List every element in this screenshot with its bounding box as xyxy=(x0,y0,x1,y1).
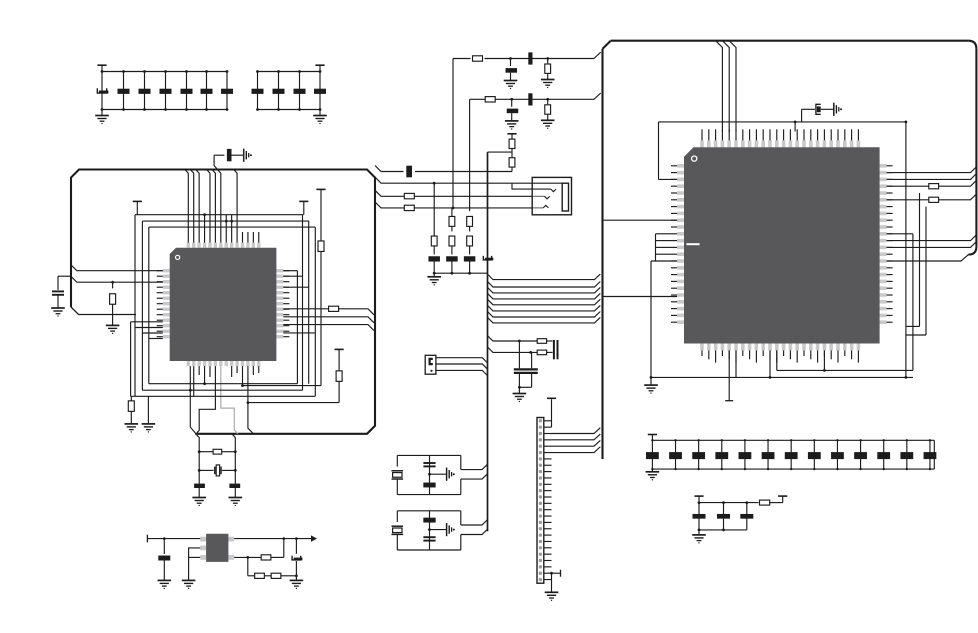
capacitor C10 xyxy=(294,70,306,111)
capacitor C1 (polarized) xyxy=(97,70,108,111)
power symbol (loop1 left) xyxy=(133,201,142,214)
capacitor C13 xyxy=(52,291,64,308)
capacitor C33 xyxy=(785,439,798,470)
capacitor C20 xyxy=(428,256,440,273)
left block border bus (top) xyxy=(71,170,375,434)
power symbol (R15) xyxy=(507,134,516,139)
wire loop right verticals xyxy=(303,215,316,397)
resistor R11 xyxy=(473,56,483,61)
resistor R4 xyxy=(318,241,324,252)
ground (C13) xyxy=(51,308,65,316)
resistor R6 xyxy=(128,396,134,424)
capacitor C15 xyxy=(229,484,240,498)
ferrite bead FB3 xyxy=(406,166,412,178)
capacitor C41 xyxy=(717,503,730,530)
power symbol (R28) xyxy=(770,496,788,503)
wire (trio bottom) xyxy=(698,529,747,532)
clock marks (U4) xyxy=(543,189,556,208)
capacitor C26 (polarized) xyxy=(802,104,834,122)
power symbol (R4) xyxy=(316,189,325,241)
wire (pin to rail) xyxy=(794,122,796,132)
wire (crystal left leg) xyxy=(196,434,200,484)
wire (U2 top rail) xyxy=(659,121,908,124)
junction dot row1-R12 xyxy=(546,57,549,60)
junction dot row2-R14 xyxy=(546,98,549,101)
power rail (VREG out) xyxy=(147,535,317,543)
wire (E1 drop) xyxy=(518,340,521,369)
wires (U2 top pin stubs) xyxy=(702,129,858,140)
wires (U1 top pins) xyxy=(185,170,259,243)
resistor R17 xyxy=(404,193,414,198)
ground (bank 2) xyxy=(313,110,327,124)
wires (U2 left pins) xyxy=(603,122,678,378)
wire (J1 pin2 pwr) xyxy=(551,399,553,427)
ground (collector) xyxy=(427,273,441,285)
ground (bank 3) xyxy=(646,469,660,480)
wire (crystal right leg) xyxy=(232,434,235,484)
ground (J1) xyxy=(545,592,559,600)
capacitor C23 (polarized) xyxy=(483,256,493,261)
capacitor C29 xyxy=(692,439,705,470)
power symbol (bank 3) xyxy=(648,435,657,441)
wire E2b xyxy=(547,351,553,353)
capacitor C27 xyxy=(646,439,659,470)
junction dot row1-C18 xyxy=(509,57,512,60)
resistor R10 xyxy=(271,573,281,578)
capacitor C22 xyxy=(464,256,476,273)
capacitor C8 xyxy=(252,70,264,111)
regulator U3 (SOT-23-5) xyxy=(200,534,234,562)
ground (R2) xyxy=(106,325,120,333)
power symbol (loop1 right) xyxy=(299,201,308,214)
resistor R19 xyxy=(449,208,455,232)
resistor R13 xyxy=(485,97,495,102)
wire loop 3 top xyxy=(149,226,315,228)
capacitor C16 xyxy=(158,537,170,580)
resistor R9 xyxy=(255,573,265,578)
power symbol VCC (bank 1) xyxy=(97,65,106,71)
capacitor C36 xyxy=(854,439,867,470)
capacitor C6 xyxy=(201,70,213,111)
wire A (bead net) xyxy=(375,166,512,172)
wires (U2 right pins) xyxy=(887,122,977,378)
resistor R26 xyxy=(929,184,939,189)
microcontroller U2 (QFP-96) xyxy=(677,140,886,350)
resistor R14 xyxy=(545,99,551,120)
left block border bus (bottom-left stub) xyxy=(71,307,136,315)
capacitor C25 xyxy=(514,369,538,373)
chassis ground (U2) xyxy=(834,103,842,116)
wire (U3 out to fb) xyxy=(234,556,261,559)
connector J1 pins xyxy=(539,419,552,581)
ground (C16) xyxy=(158,580,172,588)
capacitor C39 xyxy=(924,439,937,470)
ground (U1 area) xyxy=(142,396,156,432)
wires (U1 left pins) xyxy=(58,265,163,339)
wire C xyxy=(375,190,545,196)
wire (J1 gnd pin) xyxy=(550,570,560,593)
ground (C25) xyxy=(513,394,527,402)
wire loop 1 top xyxy=(135,214,303,216)
capacitor C18 (polarized) xyxy=(506,59,518,81)
wire (E2 drop) xyxy=(531,352,533,368)
wire E2 xyxy=(488,347,538,354)
wire loop left verticals xyxy=(135,215,149,397)
capacitor C34 xyxy=(808,439,821,470)
resistor R20 xyxy=(467,216,473,231)
crystal oscillator Y3 circuit xyxy=(392,511,488,550)
ferrite bead FB1 xyxy=(528,52,532,64)
capacitor C37 xyxy=(877,439,890,470)
wires (U2 bottom pins) xyxy=(651,350,913,400)
connector J1 body xyxy=(537,418,544,584)
wires (C25 bottom) xyxy=(518,374,532,394)
resistor R2 xyxy=(110,294,116,326)
resistor R27 xyxy=(929,197,939,202)
capacitor C40 xyxy=(693,503,706,530)
capacitor C14 xyxy=(194,484,205,498)
capacitor C24 xyxy=(554,340,558,359)
wires (U3 gnd/en) xyxy=(189,548,201,581)
wire verticals (U1 right) xyxy=(241,251,321,387)
bus (middle vertical) xyxy=(487,152,489,531)
resistor R28 xyxy=(760,500,770,505)
oscillator module U4 xyxy=(532,177,571,214)
capacitor C5 xyxy=(181,70,193,111)
capacitor C11 xyxy=(314,70,326,111)
ground (R6) xyxy=(125,424,139,432)
capacitor C38 xyxy=(900,439,913,470)
wire (trio rail) xyxy=(698,501,759,504)
junction dots (U2 bottom) xyxy=(650,369,908,379)
crystal oscillator Y2 circuit xyxy=(392,455,488,494)
ferrite bead FB2 xyxy=(528,93,532,105)
power rail VCC2 (bank 2) xyxy=(258,72,321,110)
wire collector xyxy=(433,272,488,275)
chassis ground (left block) xyxy=(244,149,252,162)
resistor R15 xyxy=(509,139,515,148)
wire (fb divider) xyxy=(248,557,255,575)
wires (U1 bottom pins) xyxy=(190,366,258,434)
capacitor C21 xyxy=(446,256,458,273)
wire row1 xyxy=(453,52,601,58)
junction dot row2-C19 xyxy=(510,98,513,101)
capacitor C32 xyxy=(762,439,775,470)
junction dot (node R2 top) xyxy=(111,281,114,284)
right block border bus xyxy=(603,41,977,459)
resistor R22 xyxy=(449,236,455,254)
ground (R12) xyxy=(541,80,555,88)
capacitor C19 (polarized) xyxy=(507,99,519,121)
power rail (bank 3) xyxy=(652,440,934,469)
microcontroller U1 (QFP-54) xyxy=(163,243,283,367)
ground (C18) xyxy=(504,81,518,89)
power symbol (J1) xyxy=(547,397,556,399)
capacitor C30 xyxy=(715,439,728,470)
junction dots (bottom mesh) xyxy=(189,382,206,391)
junction dots (U1 top) xyxy=(203,213,233,222)
capacitor C31 xyxy=(739,439,752,470)
capacitor C12 xyxy=(227,149,232,161)
wire E1 xyxy=(488,336,538,341)
ground (C14) xyxy=(192,498,206,506)
resistor R18 xyxy=(404,205,414,210)
crystal Y1 xyxy=(198,465,237,476)
capacitor C4 xyxy=(160,70,172,111)
wire loop 2 top xyxy=(142,220,309,222)
wire row2 xyxy=(470,93,601,99)
capacitor C3 xyxy=(139,70,151,111)
resistor R23 xyxy=(467,236,473,254)
resistor R3 xyxy=(329,306,339,311)
junction dot B xyxy=(433,182,436,185)
wires (J2 to bus) xyxy=(436,358,488,376)
wire (R15-R16 junction) xyxy=(488,149,513,158)
capacitor C35 xyxy=(831,439,844,470)
wire (C12 to chassis) xyxy=(232,154,244,156)
wire B xyxy=(375,177,562,189)
resistor R21 xyxy=(431,183,437,254)
resistor R24 xyxy=(537,339,546,344)
capacitor C2 xyxy=(118,70,130,111)
wire riser x469 xyxy=(469,99,471,211)
wires (border to U2 top) xyxy=(716,41,736,132)
ground (trio) xyxy=(692,530,706,543)
wire (R9-R10) xyxy=(264,575,271,577)
capacitor C28 xyxy=(669,439,682,470)
ground (bank 1) xyxy=(95,110,109,124)
capacitor C17 (polarized) xyxy=(292,537,302,580)
wire riser x453 xyxy=(452,59,454,208)
capacitor C42 xyxy=(740,503,753,530)
resistor R7 xyxy=(198,449,237,454)
ground (U3) xyxy=(182,580,196,588)
ground (U2) xyxy=(644,377,658,393)
junction dot D xyxy=(452,207,455,210)
resistor R25 xyxy=(537,350,546,355)
ground (C17) xyxy=(290,580,304,588)
resistor R8 xyxy=(261,537,285,560)
wires (U1 bottom mesh) xyxy=(131,322,340,403)
power rail VCC1 (bank 1) xyxy=(102,72,227,110)
power symbol (R5) xyxy=(335,349,344,371)
resistor R12 xyxy=(545,59,551,80)
ground (C19) xyxy=(505,121,519,129)
wires (U1 right pins) xyxy=(283,271,374,337)
resistor R16 xyxy=(509,158,515,172)
capacitor C7 xyxy=(221,70,233,111)
wires (J1 to right bus) xyxy=(552,428,601,453)
wire D xyxy=(375,202,543,208)
capacitor C9 xyxy=(273,70,285,111)
power symbol (trio) xyxy=(694,496,703,503)
gray wire (crystal net) xyxy=(221,366,238,434)
connector J2 xyxy=(425,355,436,374)
ground (C15) xyxy=(229,498,243,506)
resistor R5 xyxy=(336,371,342,403)
wire E1b xyxy=(547,340,553,342)
ground (R14) xyxy=(541,120,555,128)
wire (C12 to bus) xyxy=(214,155,224,169)
bus branch wires (8) xyxy=(488,274,601,323)
wire (R10 to C17) xyxy=(281,574,298,577)
power symbol VCC (bank 2) xyxy=(315,65,324,71)
